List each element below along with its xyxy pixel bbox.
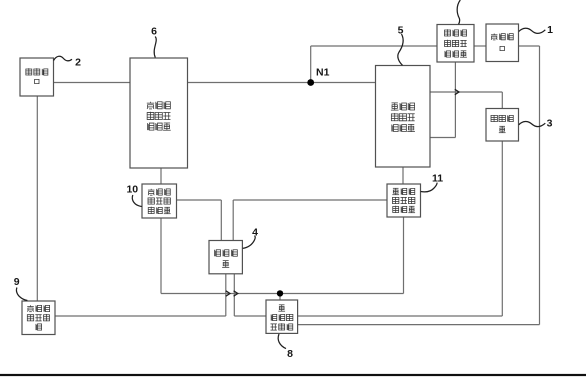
- svg-text:4: 4: [252, 227, 258, 239]
- svg-text:9: 9: [14, 276, 20, 288]
- svg-text:3: 3: [547, 118, 553, 130]
- svg-text:N1: N1: [316, 67, 330, 79]
- svg-text:1: 1: [547, 24, 553, 36]
- svg-text:2: 2: [75, 57, 81, 69]
- svg-text:10: 10: [126, 184, 138, 196]
- svg-text:6: 6: [151, 26, 157, 38]
- svg-text:8: 8: [287, 348, 293, 360]
- svg-text:5: 5: [398, 25, 404, 37]
- svg-text:11: 11: [432, 173, 443, 185]
